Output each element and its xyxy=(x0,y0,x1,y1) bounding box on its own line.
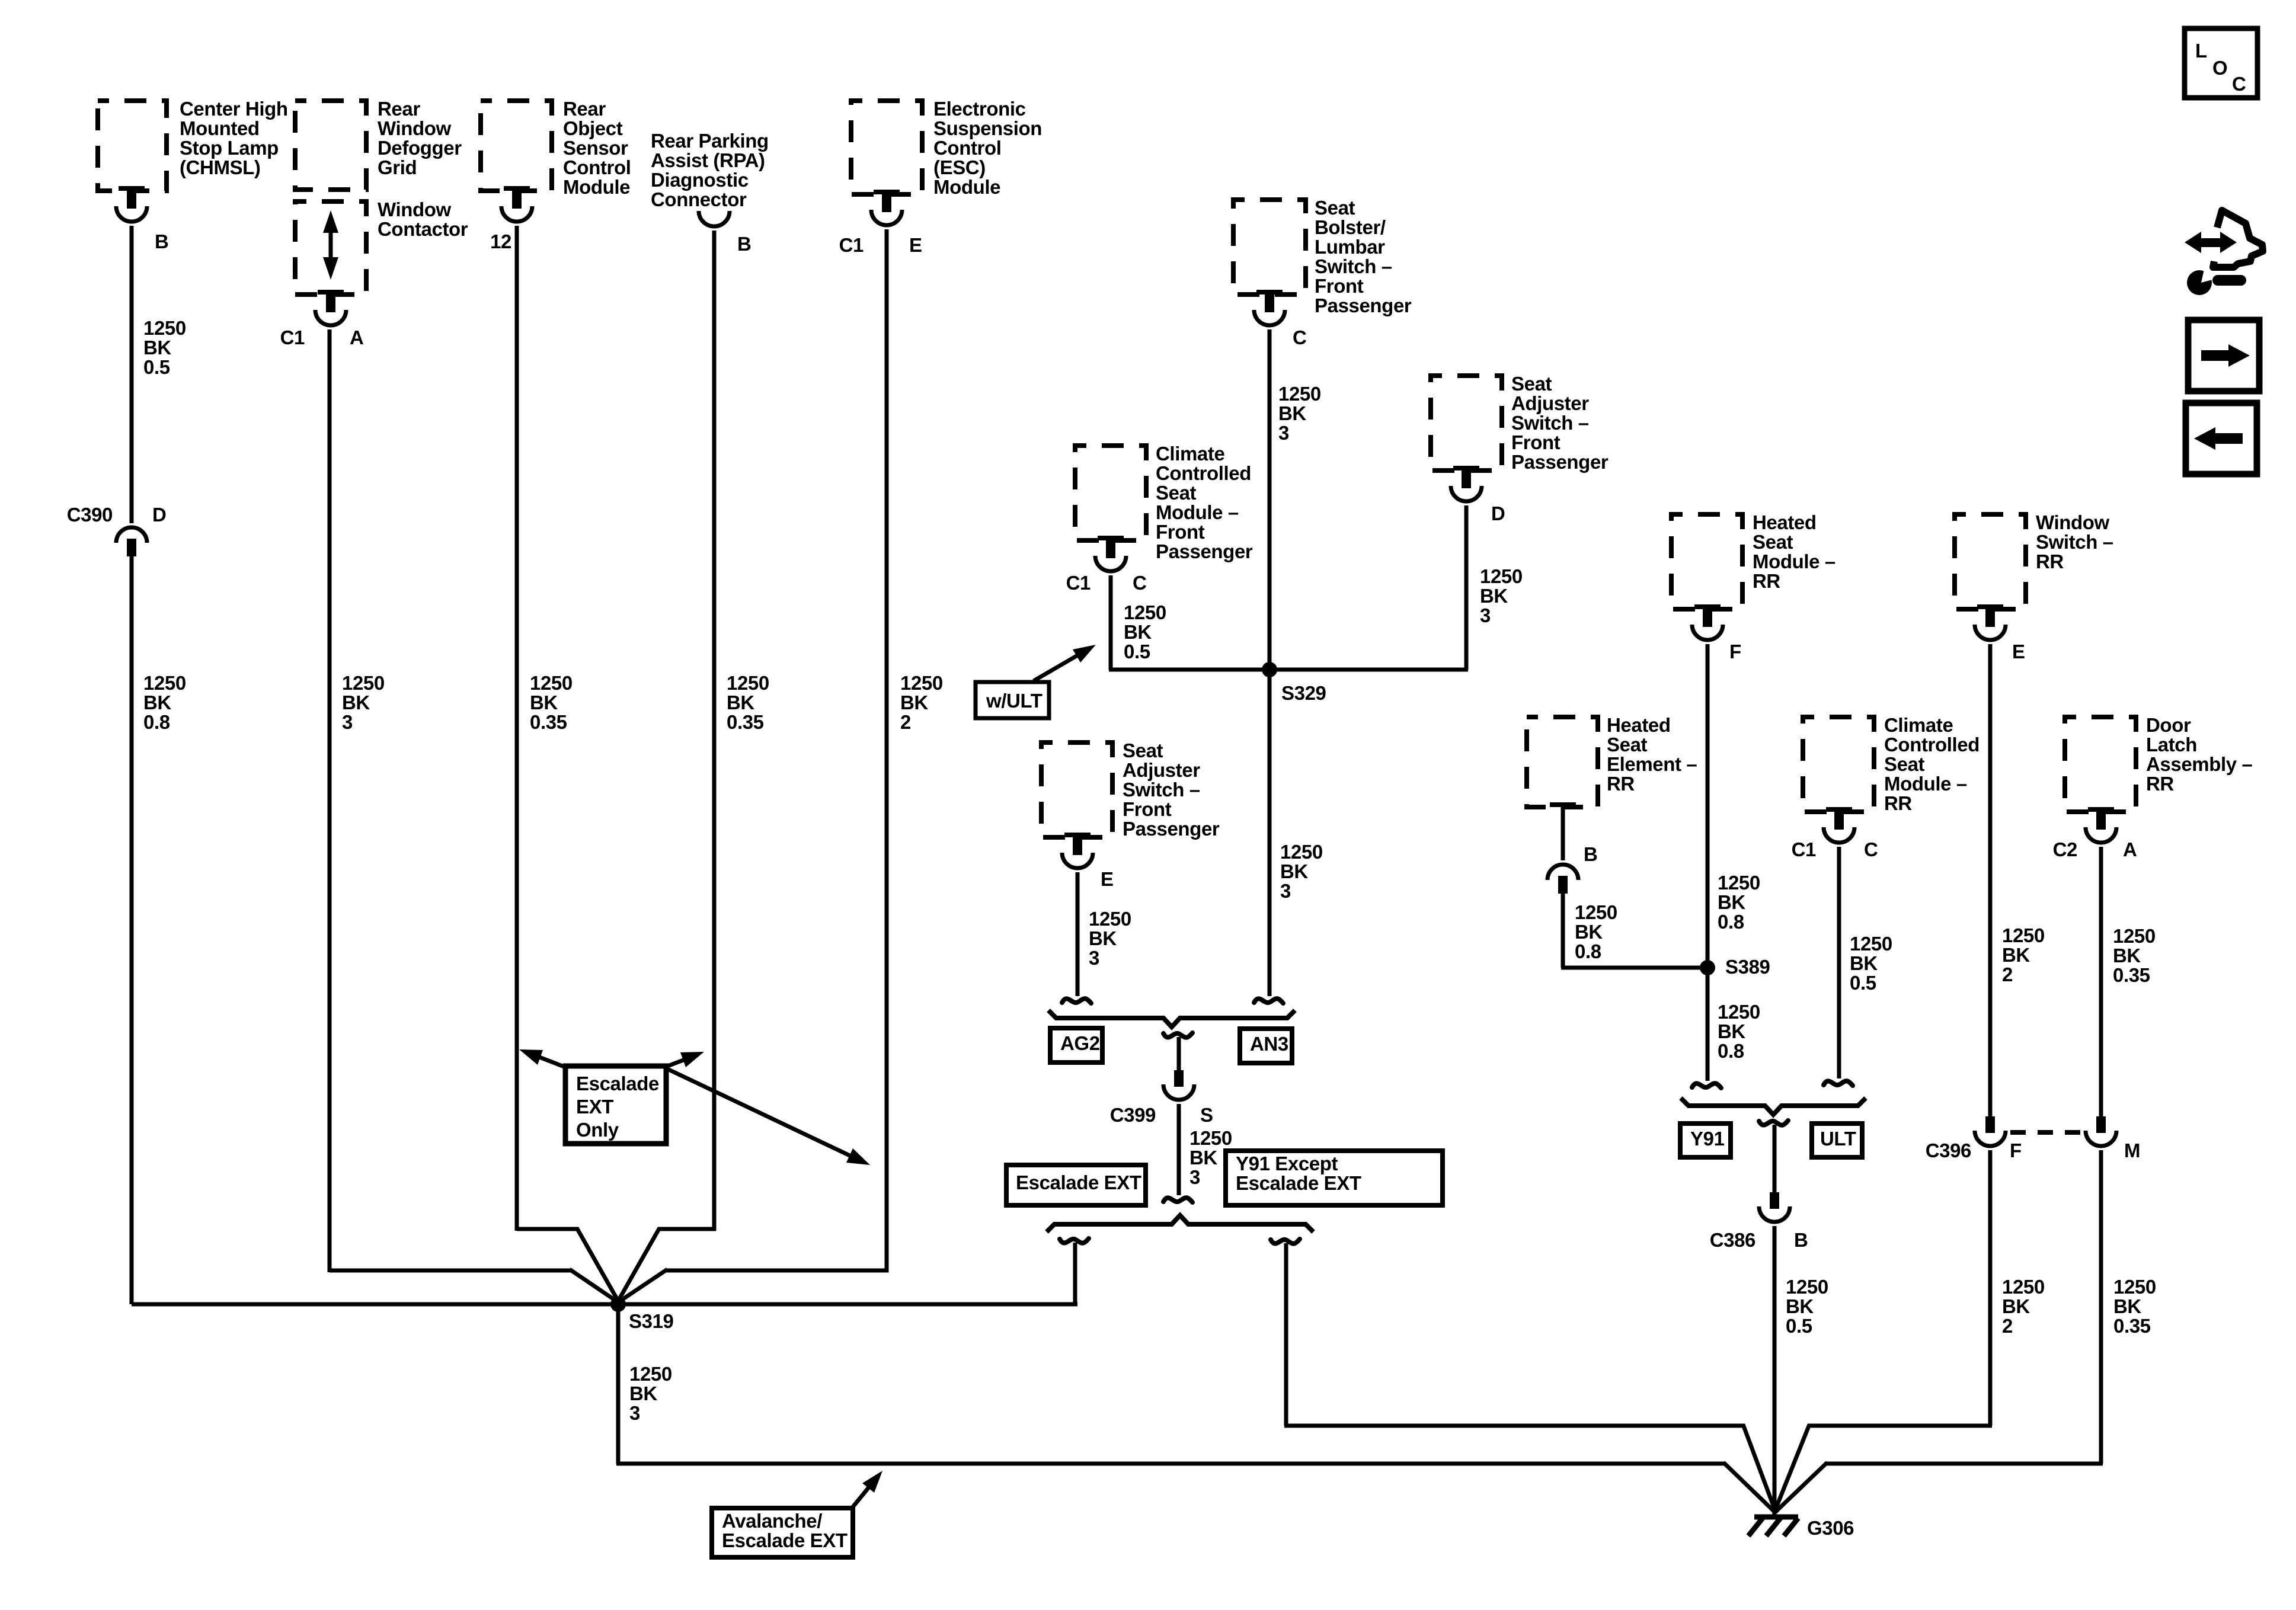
component box: Heated Seat Module - RR xyxy=(1671,511,1835,609)
svg-text:Front: Front xyxy=(1123,798,1172,820)
svg-text:L: L xyxy=(2195,40,2207,62)
svg-text:12: 12 xyxy=(490,231,511,252)
connector pin B of Heated Seat Element xyxy=(1547,802,1597,894)
svg-text:1250: 1250 xyxy=(2002,924,2045,946)
svg-text:C1: C1 xyxy=(839,234,864,256)
svg-text:Bolster/: Bolster/ xyxy=(1315,216,1386,238)
svg-text:3: 3 xyxy=(629,1402,640,1424)
svg-text:E: E xyxy=(909,234,922,256)
svg-text:0.8: 0.8 xyxy=(1575,940,1601,962)
svg-text:Climate: Climate xyxy=(1884,714,1953,736)
svg-text:Contactor: Contactor xyxy=(378,218,468,240)
connector pin B of CHMSL xyxy=(116,186,168,252)
svg-text:ULT: ULT xyxy=(1820,1128,1856,1150)
svg-text:Element –: Element – xyxy=(1607,753,1697,775)
note box: Escalade EXT xyxy=(1006,1165,1146,1205)
svg-text:O: O xyxy=(2212,57,2227,79)
svg-text:3: 3 xyxy=(1480,604,1491,626)
svg-text:S: S xyxy=(1200,1104,1213,1126)
svg-text:B: B xyxy=(1794,1229,1808,1251)
connector C2 pin A of Door Latch xyxy=(2053,807,2137,860)
svg-text:Passenger: Passenger xyxy=(1315,295,1412,316)
svg-text:0.35: 0.35 xyxy=(530,711,567,733)
svg-text:BK: BK xyxy=(1280,860,1308,882)
svg-text:Window: Window xyxy=(378,117,451,139)
wire C396 M to G306 xyxy=(1774,1150,2103,1513)
svg-text:BK: BK xyxy=(1718,1020,1745,1042)
wire CCSM-RR C to bundle xyxy=(1824,847,1853,1086)
component box: Window Switch - RR xyxy=(1955,511,2113,609)
svg-text:C1: C1 xyxy=(1066,572,1091,594)
svg-text:3: 3 xyxy=(342,711,353,733)
svg-text:Switch –: Switch – xyxy=(1315,255,1392,277)
svg-text:Window: Window xyxy=(378,199,451,220)
wire C390 to S319 xyxy=(130,556,134,1304)
svg-text:Escalade EXT: Escalade EXT xyxy=(722,1529,848,1551)
svg-text:Seat: Seat xyxy=(1123,740,1163,761)
svg-text:C396: C396 xyxy=(1926,1140,1971,1161)
component label: Rear Parking Assist (RPA) Diagnostic Connector xyxy=(651,130,769,210)
svg-text:Passenger: Passenger xyxy=(1123,818,1220,840)
svg-text:Seat: Seat xyxy=(1156,482,1197,504)
wire label 1250 BK 3 xyxy=(629,1363,672,1424)
svg-text:Lumbar: Lumbar xyxy=(1315,236,1385,258)
connector C1 pin C of CCSM-RR xyxy=(1792,807,1878,860)
connector pin C of Seat Bolster switch xyxy=(1254,290,1306,348)
svg-text:Module: Module xyxy=(933,176,1000,198)
svg-text:Seat: Seat xyxy=(1315,197,1355,219)
svg-text:Latch: Latch xyxy=(2146,734,2197,756)
svg-text:(ESC): (ESC) xyxy=(933,156,986,178)
svg-text:BK: BK xyxy=(629,1382,657,1404)
svg-text:D: D xyxy=(1491,502,1505,524)
double-headed arrow inside Window Contactor xyxy=(323,210,338,280)
arrow from w/ULT note to wire xyxy=(1034,645,1096,681)
svg-text:1250: 1250 xyxy=(1718,1001,1760,1023)
svg-text:B: B xyxy=(737,233,751,255)
svg-text:1250: 1250 xyxy=(342,672,385,694)
svg-text:Only: Only xyxy=(576,1119,619,1141)
wire label 1250 BK 3 xyxy=(1189,1127,1232,1188)
svg-text:0.5: 0.5 xyxy=(1850,972,1876,994)
svg-text:BK: BK xyxy=(1480,585,1508,607)
svg-text:C: C xyxy=(1864,838,1878,860)
svg-text:Rear: Rear xyxy=(563,98,606,120)
svg-text:F: F xyxy=(2010,1140,2022,1161)
connector pin B of RPA connector xyxy=(699,211,751,255)
connector pin F of Heated Seat Module xyxy=(1692,604,1741,662)
pigtail start of C399 wire xyxy=(1163,1033,1192,1070)
svg-text:RR: RR xyxy=(2146,773,2174,795)
svg-text:Door: Door xyxy=(2146,714,2191,736)
svg-text:1250: 1250 xyxy=(1280,841,1323,863)
svg-text:RR: RR xyxy=(1753,570,1780,592)
svg-text:Passenger: Passenger xyxy=(1511,451,1609,473)
junction S389 xyxy=(1700,956,1770,978)
wire label 1250 BK 2 xyxy=(900,672,943,733)
svg-text:E: E xyxy=(2012,641,2025,662)
brace bundling Y91/ULT wires xyxy=(1681,1098,1866,1115)
svg-text:Diagnostic: Diagnostic xyxy=(651,169,749,191)
wire label 1250 BK 0.35 xyxy=(2113,925,2156,986)
wire label 1250 BK 0.8 xyxy=(1575,901,1617,962)
wire C399 to split brace xyxy=(1163,1104,1192,1202)
backward arrow box xyxy=(2186,403,2257,474)
svg-text:BK: BK xyxy=(143,337,171,359)
pigtail start of Y91 path wire xyxy=(1271,1239,1776,1513)
wire C396 F to G306 xyxy=(1774,1150,1992,1513)
svg-text:D: D xyxy=(152,504,166,526)
wire label 1250 BK 0.5 xyxy=(143,317,186,378)
svg-text:Sensor: Sensor xyxy=(563,137,628,159)
note box: Y91 Except Escalade EXT xyxy=(1226,1151,1443,1205)
svg-text:Heated: Heated xyxy=(1753,511,1817,533)
svg-text:3: 3 xyxy=(1278,422,1289,444)
svg-text:BK: BK xyxy=(2002,944,2030,966)
svg-text:1250: 1250 xyxy=(1718,872,1760,894)
wire label 1250 BK 0.8 xyxy=(1718,872,1760,933)
wire label 1250 BK 0.8 xyxy=(1718,1001,1760,1062)
wire S389 down to bundle xyxy=(1692,968,1721,1088)
svg-text:Object: Object xyxy=(563,117,623,139)
svg-text:BK: BK xyxy=(2113,945,2141,966)
wire S329 down to bundle xyxy=(1254,670,1283,1003)
svg-text:RR: RR xyxy=(1607,773,1635,795)
svg-text:BK: BK xyxy=(2002,1295,2030,1317)
wire label 1250 BK 0.5 xyxy=(1850,933,1892,994)
vehicle direction icon xyxy=(2185,210,2263,295)
svg-text:Controlled: Controlled xyxy=(1884,734,1980,756)
wire label 1250 BK 2 xyxy=(2002,924,2045,985)
svg-text:Switch –: Switch – xyxy=(1123,779,1200,801)
svg-text:C399: C399 xyxy=(1110,1104,1156,1126)
svg-text:Module –: Module – xyxy=(1884,773,1967,795)
component box: Rear Window Defogger Grid xyxy=(295,98,462,190)
svg-text:S319: S319 xyxy=(629,1310,674,1332)
svg-text:1250: 1250 xyxy=(1786,1276,1828,1298)
svg-text:0.8: 0.8 xyxy=(1718,911,1744,933)
svg-text:1250: 1250 xyxy=(143,672,186,694)
svg-text:C: C xyxy=(1133,572,1146,594)
svg-text:1250: 1250 xyxy=(530,672,573,694)
svg-text:Window: Window xyxy=(2036,511,2109,533)
svg-text:B: B xyxy=(1584,843,1597,865)
svg-text:w/ULT: w/ULT xyxy=(986,690,1043,712)
connector C1 pin C of CCSM-FP xyxy=(1066,536,1147,594)
wire S319 to G306 xyxy=(616,1304,1776,1513)
in-line connector C396 pin M xyxy=(2086,1116,2140,1161)
brace bundling AG2/AN3 wires xyxy=(1048,1010,1295,1027)
svg-text:0.8: 0.8 xyxy=(1718,1040,1744,1062)
arrow from note to ESC wire xyxy=(666,1068,870,1165)
svg-text:C1: C1 xyxy=(1792,838,1816,860)
harness tag AN3 xyxy=(1240,1029,1292,1063)
component box: Center High Mounted Stop Lamp (CHMSL) xyxy=(98,98,288,191)
svg-text:BK: BK xyxy=(1786,1295,1814,1317)
arrow from note to ROSCM wire xyxy=(519,1049,565,1067)
connector C1 pin A of Window Contactor xyxy=(280,290,364,348)
svg-text:3: 3 xyxy=(1089,947,1099,969)
svg-text:1250: 1250 xyxy=(1278,383,1321,405)
svg-text:BK: BK xyxy=(1189,1147,1217,1169)
svg-text:BK: BK xyxy=(530,692,558,713)
svg-text:2: 2 xyxy=(2002,964,2013,985)
note box: w/ULT xyxy=(976,682,1049,718)
svg-text:C386: C386 xyxy=(1710,1229,1755,1251)
svg-text:0.8: 0.8 xyxy=(143,711,170,733)
svg-text:C1: C1 xyxy=(280,327,305,348)
svg-text:Climate: Climate xyxy=(1156,443,1224,465)
svg-text:1250: 1250 xyxy=(727,672,769,694)
connector pin E of Window Switch RR xyxy=(1975,604,2025,662)
svg-text:Stop Lamp: Stop Lamp xyxy=(180,137,279,159)
wire label 1250 BK 0.5 xyxy=(1786,1276,1828,1337)
svg-text:1250: 1250 xyxy=(900,672,943,694)
svg-text:1250: 1250 xyxy=(1124,601,1166,623)
forward arrow box xyxy=(2188,320,2259,391)
svg-text:BK: BK xyxy=(2113,1295,2141,1317)
component box: Seat Bolster/Lumbar Switch - Front Passenger xyxy=(1233,197,1412,316)
component box: Window Contactor xyxy=(295,199,468,295)
svg-text:1250: 1250 xyxy=(2113,1276,2156,1298)
svg-text:Assembly –: Assembly – xyxy=(2146,753,2252,775)
wire Heated Seat Element B to S389 xyxy=(1561,894,1707,968)
wire label 1250 BK 2 xyxy=(2002,1276,2045,1337)
svg-text:Escalade: Escalade xyxy=(576,1073,659,1094)
arrow from Avalanche note to wire xyxy=(853,1471,882,1507)
svg-text:M: M xyxy=(2124,1140,2140,1161)
svg-text:S329: S329 xyxy=(1281,682,1326,704)
connector C1 pin E of ESC module xyxy=(839,190,922,256)
wire Heated Seat Module F to S389 xyxy=(1706,644,1710,968)
svg-text:Module –: Module – xyxy=(1753,550,1835,572)
svg-text:EXT: EXT xyxy=(576,1096,613,1118)
wire label 1250 BK 3 xyxy=(342,672,385,733)
harness tag Y91 xyxy=(1680,1124,1731,1157)
ground G306 xyxy=(1748,1517,1854,1539)
svg-text:BK: BK xyxy=(1850,952,1878,974)
svg-text:Mounted: Mounted xyxy=(180,117,260,139)
svg-text:Y91: Y91 xyxy=(1690,1128,1725,1150)
svg-text:BK: BK xyxy=(727,692,754,713)
svg-text:RR: RR xyxy=(1884,792,1912,814)
svg-text:Passenger: Passenger xyxy=(1156,540,1253,562)
wire label 1250 BK 0.8 xyxy=(143,672,186,733)
svg-text:Adjuster: Adjuster xyxy=(1123,759,1200,781)
wire RPA B to S319 xyxy=(617,231,716,1303)
component box: Electronic Suspension Control (ESC) Module xyxy=(851,98,1042,198)
svg-text:Rear Parking: Rear Parking xyxy=(651,130,769,152)
svg-text:1250: 1250 xyxy=(1480,565,1523,587)
wire Seat Adjuster E to bundle xyxy=(1062,872,1091,1003)
wire label 1250 BK 3 xyxy=(1480,565,1523,626)
svg-text:E: E xyxy=(1101,868,1114,890)
connector pin 12 of ROSCM xyxy=(490,186,532,252)
svg-text:B: B xyxy=(155,231,168,252)
wire label 1250 BK 0.35 xyxy=(2113,1276,2156,1337)
harness tag AG2 xyxy=(1050,1028,1102,1062)
junction S319 xyxy=(610,1297,674,1332)
wire Seat Bolster C to S329 xyxy=(1268,329,1272,670)
svg-text:A: A xyxy=(350,327,363,348)
svg-text:1250: 1250 xyxy=(1575,901,1617,923)
dashed link of connector C396 xyxy=(2010,1130,2084,1135)
wire label 1250 BK 0.35 xyxy=(530,672,573,733)
wire Window Switch E to C396 xyxy=(1988,644,1993,1118)
svg-text:Seat: Seat xyxy=(1884,753,1925,775)
component box: Climate Controlled Seat Module - Front Passenger xyxy=(1075,443,1253,562)
svg-text:(CHMSL): (CHMSL) xyxy=(180,156,261,178)
svg-text:C2: C2 xyxy=(2053,838,2077,860)
LOC reference box xyxy=(2185,28,2257,98)
svg-text:3: 3 xyxy=(1189,1166,1200,1188)
svg-text:Front: Front xyxy=(1511,431,1560,453)
wire Seat Adjuster D to S329 xyxy=(1268,505,1468,670)
svg-text:Escalade EXT: Escalade EXT xyxy=(1016,1172,1141,1193)
svg-text:0.35: 0.35 xyxy=(727,711,764,733)
arrow from note to RPA wire xyxy=(666,1052,704,1067)
svg-text:Escalade EXT: Escalade EXT xyxy=(1236,1172,1361,1194)
wire label 1250 BK 3 xyxy=(1280,841,1323,902)
svg-text:Center High: Center High xyxy=(180,98,288,120)
svg-text:AG2: AG2 xyxy=(1060,1032,1100,1054)
svg-text:Module: Module xyxy=(563,176,630,198)
svg-text:Rear: Rear xyxy=(378,98,420,120)
svg-text:Module –: Module – xyxy=(1156,501,1239,523)
component box: Door Latch Assembly - RR xyxy=(2065,714,2252,812)
svg-text:Seat: Seat xyxy=(1753,531,1793,553)
svg-text:Y91 Except: Y91 Except xyxy=(1236,1153,1338,1174)
svg-text:2: 2 xyxy=(2002,1315,2013,1337)
svg-text:Seat: Seat xyxy=(1607,734,1648,756)
harness tag ULT xyxy=(1812,1124,1862,1157)
svg-text:BK: BK xyxy=(1718,891,1745,913)
svg-text:Defogger: Defogger xyxy=(378,137,462,159)
svg-text:3: 3 xyxy=(1280,880,1291,902)
svg-text:S389: S389 xyxy=(1725,956,1770,978)
component box: Seat Adjuster Switch - Front Passenger (upper) xyxy=(1431,373,1609,473)
svg-text:BK: BK xyxy=(143,692,171,713)
svg-text:Controlled: Controlled xyxy=(1156,462,1251,484)
pigtail start of Escalade EXT path wire xyxy=(1060,1238,1089,1304)
svg-text:1250: 1250 xyxy=(1089,908,1131,930)
wire Window Contactor A to S319 xyxy=(330,329,619,1303)
note box: Avalanche/Escalade EXT xyxy=(712,1508,853,1557)
note box: Escalade EXT Only xyxy=(565,1066,666,1144)
in-line connector C390 pin D xyxy=(67,504,167,556)
component box: Rear Object Sensor Control Module xyxy=(481,98,631,198)
svg-text:Suspension: Suspension xyxy=(933,117,1042,139)
component box: Heated Seat Element - RR xyxy=(1527,714,1697,807)
svg-text:Switch –: Switch – xyxy=(1511,412,1589,434)
svg-text:F: F xyxy=(1729,641,1741,662)
wire CHMSL B to C390 xyxy=(130,226,134,523)
wire S319 horizontal bus xyxy=(132,1302,1077,1307)
connector pin E of lower Seat Adjuster Switch xyxy=(1062,833,1114,890)
svg-text:C390: C390 xyxy=(67,504,113,526)
svg-text:G306: G306 xyxy=(1807,1517,1854,1539)
svg-text:Seat: Seat xyxy=(1511,373,1552,395)
svg-text:AN3: AN3 xyxy=(1250,1033,1288,1055)
wire ESC E to S319 xyxy=(617,229,888,1303)
svg-text:BK: BK xyxy=(1089,927,1117,949)
svg-text:1250: 1250 xyxy=(629,1363,672,1385)
svg-text:BK: BK xyxy=(342,692,370,713)
wire label 1250 BK 0.5 xyxy=(1124,601,1166,662)
svg-text:0.5: 0.5 xyxy=(1786,1315,1812,1337)
svg-text:Switch –: Switch – xyxy=(2036,531,2113,553)
svg-text:Control: Control xyxy=(933,137,1002,159)
svg-text:Electronic: Electronic xyxy=(933,98,1026,120)
component box: Seat Adjuster Switch - Front Passenger (lower) xyxy=(1041,740,1220,840)
svg-text:BK: BK xyxy=(1575,921,1603,943)
pigtail start of C386 wire xyxy=(1759,1121,1788,1192)
svg-text:BK: BK xyxy=(1278,402,1306,424)
svg-text:1250: 1250 xyxy=(143,317,186,339)
svg-text:0.5: 0.5 xyxy=(1124,641,1150,662)
brace splitting to Escalade EXT / Y91 paths xyxy=(1047,1215,1313,1232)
svg-text:1250: 1250 xyxy=(1850,933,1892,955)
svg-text:Front: Front xyxy=(1315,275,1364,297)
wire C386 to G306 xyxy=(1773,1226,1777,1515)
svg-text:1250: 1250 xyxy=(2002,1276,2045,1298)
svg-text:0.35: 0.35 xyxy=(2113,964,2150,986)
in-line connector C399 pin S xyxy=(1110,1070,1213,1126)
svg-text:C: C xyxy=(2232,73,2246,95)
wire Door Latch A to C396 xyxy=(2099,847,2103,1118)
svg-text:Connector: Connector xyxy=(651,188,747,210)
svg-text:Front: Front xyxy=(1156,521,1205,543)
svg-text:Avalanche/: Avalanche/ xyxy=(722,1510,822,1532)
wire label 1250 BK 3 xyxy=(1089,908,1131,969)
svg-text:Heated: Heated xyxy=(1607,714,1671,736)
svg-text:2: 2 xyxy=(900,711,911,733)
in-line connector C386 pin B xyxy=(1710,1192,1808,1251)
svg-text:0.35: 0.35 xyxy=(2113,1315,2151,1337)
svg-text:A: A xyxy=(2123,838,2137,860)
svg-text:1250: 1250 xyxy=(2113,925,2156,947)
wire label 1250 BK 0.35 xyxy=(727,672,769,733)
wire CCSM-FP C to S329 xyxy=(1109,575,1269,670)
connector pin D of Seat Adjuster Switch xyxy=(1451,466,1505,524)
wire label 1250 BK 3 xyxy=(1278,383,1321,444)
in-line connector C396 pin F xyxy=(1926,1116,2022,1161)
svg-text:Grid: Grid xyxy=(378,156,417,178)
component box: Climate Controlled Seat Module - RR xyxy=(1803,714,1980,814)
junction S329 xyxy=(1262,662,1326,704)
svg-text:BK: BK xyxy=(900,692,928,713)
svg-text:1250: 1250 xyxy=(1189,1127,1232,1149)
svg-text:RR: RR xyxy=(2036,550,2064,572)
svg-text:Assist (RPA): Assist (RPA) xyxy=(651,149,765,171)
svg-text:C: C xyxy=(1293,327,1306,348)
wire ROSCM 12 to S319 xyxy=(517,226,619,1303)
svg-text:BK: BK xyxy=(1124,621,1152,643)
svg-text:0.5: 0.5 xyxy=(143,356,170,378)
svg-text:Adjuster: Adjuster xyxy=(1511,392,1589,414)
svg-text:Control: Control xyxy=(563,156,631,178)
